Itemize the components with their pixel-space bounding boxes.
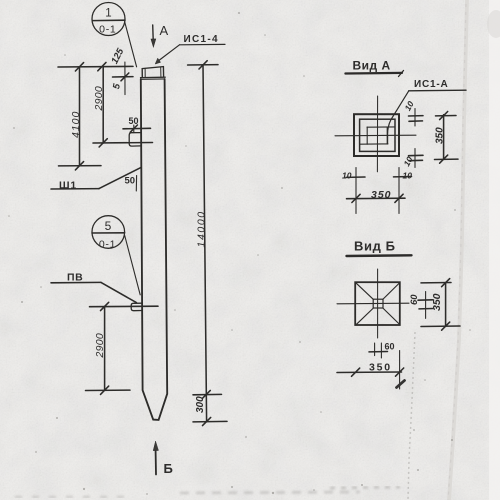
view A dim 350 right top extension xyxy=(436,115,457,117)
svg-text:300: 300 xyxy=(195,396,206,413)
svg-text:350: 350 xyxy=(435,127,446,144)
view A dim 10 below-right extension vertical xyxy=(398,168,400,214)
view Б dim 60 right tick b xyxy=(419,308,433,310)
pile cap hatch mark left xyxy=(144,68,146,77)
view Б dim 350 right bottom extension xyxy=(421,325,460,328)
svg-text:Ш1: Ш1 xyxy=(59,180,77,192)
pile top band line 1 xyxy=(141,76,166,78)
dimension 5 extension vertical xyxy=(124,62,126,95)
balloon 5 divider chord xyxy=(92,232,125,234)
label Ш1 leader horizontal wire xyxy=(51,188,99,190)
svg-text:Вид А: Вид А xyxy=(353,59,391,73)
tick at 2900 lower bottom xyxy=(101,386,109,394)
svg-text:Вид Б: Вид Б xyxy=(354,239,396,254)
view A dim 10 below-left extension vertical xyxy=(355,168,357,214)
view Б title underline xyxy=(347,254,412,257)
view Б dim 350 right line xyxy=(445,283,447,326)
tick at 300 top xyxy=(202,390,210,398)
svg-text:0-1: 0-1 xyxy=(99,24,116,36)
svg-text:ПВ: ПВ xyxy=(67,272,83,284)
dimension 50 lower tick xyxy=(135,176,137,192)
pile cap hatch mark right xyxy=(160,67,162,76)
tick at view Б 350 top xyxy=(442,279,450,287)
tick at 350 right bottom xyxy=(440,155,448,163)
svg-text:ИС1-А: ИС1-А xyxy=(414,79,449,90)
view A dim 10 top-right tick b xyxy=(409,120,423,122)
svg-text:50: 50 xyxy=(125,176,136,187)
svg-text:10: 10 xyxy=(403,171,413,181)
view A dim 10 bottom-right tick b xyxy=(409,159,423,161)
tick at view Б 350 bottom right xyxy=(396,368,404,376)
view A outer square xyxy=(354,114,399,156)
svg-text:350: 350 xyxy=(369,362,392,374)
tick at 14000 top xyxy=(199,61,207,69)
view Б dim 350 bottom extension vertical xyxy=(399,351,401,389)
svg-text:2900: 2900 xyxy=(93,86,105,112)
pile top band line 2 xyxy=(141,78,165,80)
svg-text:60: 60 xyxy=(385,342,395,352)
dimension 5 line xyxy=(113,76,134,78)
view A dim 10 bottom-right tick a xyxy=(409,154,424,156)
view Б outer square xyxy=(355,282,400,325)
view Б dim 60 right vertical xyxy=(425,292,427,319)
view A dim 350 right bottom extension xyxy=(435,158,459,160)
dimension 300 lower extension xyxy=(193,420,227,423)
view A inner square xyxy=(360,119,395,151)
svg-text:5: 5 xyxy=(105,219,112,233)
fold crease line right side xyxy=(449,0,467,500)
view Б dim 60 bottom tick right xyxy=(380,343,382,358)
view Б centerline vertical xyxy=(377,269,379,338)
tick at 2900 top xyxy=(98,62,106,70)
label ИС1-4 leader diagonal wire xyxy=(158,45,180,62)
tick at 300 bottom xyxy=(203,417,211,425)
label Ш1 leader diagonal wire xyxy=(99,168,141,189)
tick at 350 bottom left xyxy=(352,194,360,202)
view Б diagonal top-left xyxy=(356,283,373,299)
balloon 1 divider chord xyxy=(92,19,125,21)
view A dim 10 top-right tick a xyxy=(409,115,424,117)
dimension 50 upper tick vertical xyxy=(133,125,135,133)
tick at view Б 350 bottom left xyxy=(352,368,360,376)
view Б diagonal top-right xyxy=(383,283,400,299)
svg-text:ИС1-4: ИС1-4 xyxy=(184,34,219,45)
embedded clip ПВ xyxy=(131,303,141,311)
label ИС1-А underline xyxy=(409,89,466,92)
dimension 2900 line upper xyxy=(102,67,104,143)
label ПВ leader horizontal wire xyxy=(51,281,101,283)
view A inner rect bottom line xyxy=(360,143,388,145)
dimension 50 upper line xyxy=(123,127,151,130)
bottom edge smudge xyxy=(15,487,400,497)
callout balloon 5 circle xyxy=(92,216,125,249)
top dimension line left xyxy=(58,65,133,68)
view A dim 350 right line xyxy=(443,115,445,160)
svg-text:2900: 2900 xyxy=(94,333,106,359)
view A inner rect left line xyxy=(366,127,368,144)
svg-text:1: 1 xyxy=(105,7,111,19)
view A dim 350 bottom line xyxy=(347,197,406,200)
tick at 50 upper xyxy=(130,125,137,132)
tick at 4100 bottom xyxy=(75,162,83,170)
svg-text:4100: 4100 xyxy=(70,111,82,138)
view A title underline end tick xyxy=(399,71,404,77)
embedded clip Ш1 xyxy=(129,133,140,147)
label ИС1-4 leader underline xyxy=(180,43,226,45)
dimension 4100 line xyxy=(79,67,81,166)
view A title underline xyxy=(345,72,402,75)
label ПВ leader diagonal wire xyxy=(101,282,136,302)
svg-text:0-1: 0-1 xyxy=(99,239,116,251)
view A dim 10 below-left tick xyxy=(346,176,365,178)
section arrow А xyxy=(152,25,155,43)
view Б dim 60 bottom line xyxy=(369,351,388,353)
dimension 2900 lower bottom extension xyxy=(86,389,131,391)
view Б dim 350 right top extension xyxy=(421,282,451,284)
right paper edge lighter strip xyxy=(489,0,500,500)
tick at 4100 top xyxy=(75,63,83,71)
svg-text:10: 10 xyxy=(342,171,352,181)
dimension 14000 top extension xyxy=(188,64,218,66)
view A inner rect right line xyxy=(386,127,388,144)
view Б diagonal bottom-right xyxy=(383,308,400,324)
label ИС1-А leader wire xyxy=(388,91,409,144)
view A dim 10 below-right tick xyxy=(394,176,412,178)
svg-text:60: 60 xyxy=(409,294,420,305)
dimension 4100 bottom extension xyxy=(59,165,102,167)
svg-text:350: 350 xyxy=(431,293,443,311)
view Б dim 60 right tick a xyxy=(418,299,433,301)
balloon 5 leader wire xyxy=(125,236,141,295)
label ИС1-4 leader arrowhead xyxy=(155,58,160,64)
callout balloon 1 circle xyxy=(92,3,125,36)
view Б diagonal bottom-left xyxy=(356,308,373,325)
svg-text:14000: 14000 xyxy=(196,210,208,247)
tick at 350 right top xyxy=(440,112,448,120)
svg-text:Б: Б xyxy=(164,461,173,476)
tick at dimension 5 xyxy=(121,73,129,81)
view A dim 10 top-right vertical xyxy=(414,109,416,127)
extension through clip ПВ xyxy=(90,305,159,308)
svg-text:А: А xyxy=(160,23,169,38)
tick at 2900 lower top xyxy=(101,302,109,310)
view A centerline vertical xyxy=(376,96,378,172)
balloon 1 leader wire xyxy=(125,22,137,67)
view A centerline horizontal xyxy=(335,134,416,137)
dark tick blob bottom xyxy=(397,381,405,388)
view Б center small square xyxy=(373,299,383,308)
dimension 2900 lower line xyxy=(104,307,106,391)
pile cap ИС1-4 outline xyxy=(142,67,163,78)
view Б centerline horizontal xyxy=(337,302,409,305)
svg-text:50: 50 xyxy=(129,116,139,126)
tick at 2900 upper bottom xyxy=(99,139,107,147)
view Б dim 350 bottom line xyxy=(337,371,402,374)
view Б dim 60 bottom tick left xyxy=(374,343,376,356)
tick at view Б 350 bottom xyxy=(442,322,450,330)
view A dim 10 bottom-right vertical xyxy=(414,149,416,168)
dimension 300 upper extension xyxy=(193,393,222,395)
extension through clip Ш1 xyxy=(93,142,153,145)
tick at 350 bottom right xyxy=(395,194,403,202)
view A inner rect top line xyxy=(367,126,395,128)
svg-text:350: 350 xyxy=(371,189,392,201)
dimension 14000 line xyxy=(203,65,207,422)
section arrow Б xyxy=(155,446,158,475)
pile body outline xyxy=(141,79,167,420)
